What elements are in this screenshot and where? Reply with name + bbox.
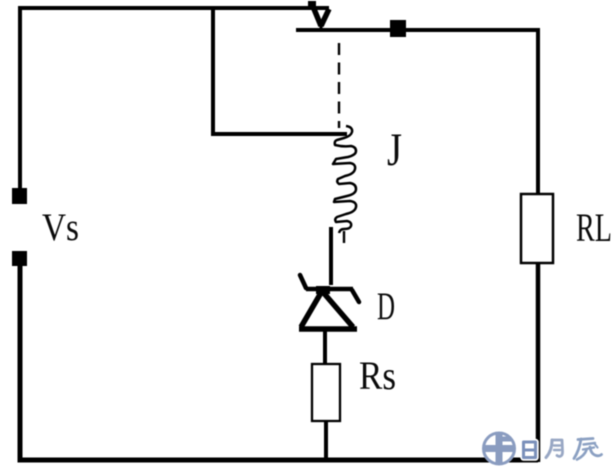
svg-text:J: J <box>387 124 402 176</box>
svg-text:Rs: Rs <box>359 353 396 398</box>
svg-text:RL: RL <box>576 205 612 250</box>
svg-text:Vs: Vs <box>42 206 79 249</box>
svg-text:D: D <box>377 285 395 328</box>
